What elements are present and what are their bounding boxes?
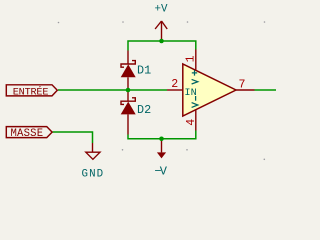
svg-text:GND: GND	[82, 168, 105, 180]
svg-text:D1: D1	[137, 63, 151, 77]
svg-text:MASSE: MASSE	[11, 128, 44, 140]
svg-text:4: 4	[185, 119, 198, 126]
svg-text:7: 7	[239, 78, 246, 91]
svg-text:D2: D2	[137, 103, 151, 117]
svg-text:1: 1	[185, 55, 198, 62]
svg-text:2: 2	[171, 78, 178, 91]
svg-text:ENTRÉE: ENTRÉE	[13, 85, 49, 99]
svg-text:+V: +V	[155, 3, 168, 15]
svg-text:IN: IN	[184, 87, 196, 99]
